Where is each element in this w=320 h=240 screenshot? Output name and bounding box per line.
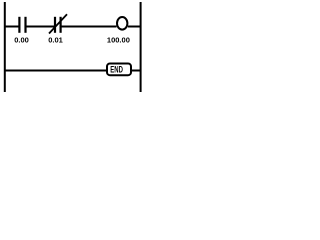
wire rung1 segment rail to contact 0.00: [4, 26, 19, 28]
wire rung1 segment contact to coil: [61, 26, 117, 28]
wire rung2 segment END box to right rail: [131, 70, 141, 72]
svg-text:0.00: 0.00: [14, 36, 29, 45]
contact 0.00 (normally open): [19, 17, 25, 33]
wire rung2 segment rail to END box: [4, 70, 107, 72]
coil 100.00: [117, 17, 127, 30]
svg-text:100.00: 100.00: [107, 36, 130, 45]
wire rung1 segment between contacts: [26, 26, 56, 28]
right power rail: [140, 2, 142, 92]
END instruction box: [107, 64, 131, 76]
wire rung1 segment coil to right rail: [128, 26, 141, 28]
svg-text:END: END: [110, 64, 123, 75]
svg-text:0.01: 0.01: [48, 36, 63, 45]
contact 0.01 (normally closed): [49, 14, 67, 33]
left power rail: [4, 2, 6, 92]
